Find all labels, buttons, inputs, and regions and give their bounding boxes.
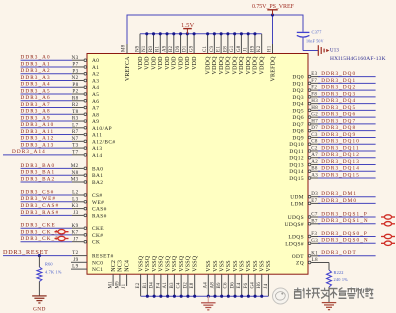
pin DQ6 / net DDR3_DQ6 [292,112,375,122]
svg-text:DDR3_A3: DDR3_A3 [21,75,51,81]
svg-text:VSSQ: VSSQ [159,255,165,272]
svg-text:A5: A5 [92,92,99,98]
svg-text:D9: D9 [176,45,181,52]
svg-text:A3: A3 [311,174,318,179]
svg-text:VSSQ: VSSQ [186,255,192,272]
svg-text:1.5V: 1.5V [181,22,195,29]
pin WE# / net DDR3_WE# [21,196,105,206]
svg-text:DDR3_DQ1: DDR3_DQ1 [321,78,356,84]
pin VSS (J4) [264,260,272,296]
svg-text:DQ15: DQ15 [289,176,304,182]
svg-text:VDDQ: VDDQ [219,56,225,75]
svg-text:VSSQ: VSSQ [138,255,144,272]
svg-text:A7: A7 [92,106,99,112]
svg-text:P3: P3 [72,68,78,74]
svg-text:DDR3_BA1: DDR3_BA1 [21,170,56,176]
svg-text:A7: A7 [311,153,318,158]
pin ZQ / wire to R222 [296,257,329,270]
svg-text:L3: L3 [72,196,78,202]
svg-text:L7: L7 [72,122,78,128]
svg-text:DDR3_DQ15: DDR3_DQ15 [321,172,360,178]
pin VSS (A8) [210,260,218,298]
svg-text:DDR3_WE#: DDR3_WE# [21,196,57,202]
pin BA0 / net DDR3_BA0 [21,163,104,173]
pin DQ3 / net DDR3_DQ3 [292,91,375,101]
pin DQ2 / net DDR3_DQ2 [292,85,375,95]
svg-text:G8: G8 [237,45,242,52]
svg-text:VDDQ: VDDQ [253,56,259,75]
wire DDR3_RESET to R60 [38,256,40,267]
svg-text:DDR3_RESET: DDR3_RESET [3,249,49,256]
svg-text:C3: C3 [311,133,318,138]
svg-text:VDDQ: VDDQ [246,56,252,75]
svg-text:DDR3_DQS1_N: DDR3_DQS1_N [321,218,369,224]
svg-text:A12/BC#: A12/BC# [92,139,115,145]
svg-text:A8: A8 [210,282,215,289]
pin LDQS# / net DDR3_DQS0_N [285,238,395,248]
svg-text:F8: F8 [311,92,317,97]
svg-text:LDM: LDM [291,201,304,207]
svg-text:DDR3_A13: DDR3_A13 [21,142,55,148]
svg-text:VSSQ: VSSQ [192,255,198,272]
capacitor C377 10nF 50V [297,30,324,44]
svg-text:E3: E3 [311,72,317,77]
svg-text:J4: J4 [264,283,269,288]
svg-text:DDR3_A12: DDR3_A12 [21,136,55,142]
pin BA2 / net DDR3_BA2 [21,176,104,186]
pin NC3 [115,260,123,289]
svg-text:VDD: VDD [138,56,144,70]
svg-text:DDR3_DQ5: DDR3_DQ5 [321,105,356,111]
svg-text:D4: D4 [150,282,155,289]
svg-text:U13: U13 [330,49,339,54]
svg-text:R2: R2 [72,102,79,108]
pin DQ15 / net DDR3_DQ15 [289,172,375,182]
svg-text:N8: N8 [72,170,79,176]
svg-text:P2: P2 [72,89,78,95]
svg-text:A3: A3 [92,78,99,84]
svg-text:DDR3_DQS0_N: DDR3_DQS0_N [321,238,369,244]
svg-text:VSSQ: VSSQ [172,255,178,272]
pin VSS (A4) [204,260,212,298]
svg-text:VSS: VSS [206,260,212,272]
svg-text:VDD: VDD [185,56,191,70]
pin DQ7 / net DDR3_DQ7 [292,118,375,128]
svg-text:D3: D3 [311,192,318,197]
pin DQ12 / net DDR3_DQ12 [289,152,375,162]
pin VDD (G9) [189,32,197,70]
svg-text:VSS: VSS [219,260,225,272]
svg-text:H9: H9 [250,45,255,52]
pin VSS (C6) [224,260,232,298]
svg-text:CS#: CS# [92,193,103,199]
svg-text:G1: G1 [230,45,235,52]
svg-text:DQ3: DQ3 [292,95,304,101]
svg-text:DDR3_DQ3: DDR3_DQ3 [321,91,356,97]
svg-text:R3: R3 [72,116,79,122]
svg-text:DDR3_DM0: DDR3_DM0 [321,198,357,204]
svg-text:CKE: CKE [92,226,104,232]
svg-text:RAS#: RAS# [92,213,107,219]
svg-text:DDR3_DQ2: DDR3_DQ2 [321,85,356,91]
svg-text:DDR3_CS#: DDR3_CS# [21,189,55,195]
svg-text:F2: F2 [311,86,317,91]
svg-text:DDR3_DQ11: DDR3_DQ11 [321,145,360,151]
pin RESET# / net DDR3_RESET [3,249,114,260]
pin VSSQ (D4) [150,255,158,298]
svg-text:DQ8: DQ8 [292,129,304,135]
svg-text:VSS: VSS [253,260,259,272]
svg-text:VDD: VDD [192,56,198,70]
svg-text:A8: A8 [92,112,99,118]
pin VDDQ (K2) [257,34,265,75]
svg-text:D1: D1 [183,45,188,52]
svg-text:A13: A13 [92,146,102,152]
designator U13 [330,49,339,54]
wire net VREF (VREFCA to C377) [127,15,303,44]
svg-text:A4: A4 [92,85,99,91]
svg-text:0.75V_PS_VREF: 0.75V_PS_VREF [252,4,295,10]
junction VREF node [271,13,274,16]
svg-text:VREFCA: VREFCA [125,56,131,81]
svg-text:DDR3_DQ13: DDR3_DQ13 [321,159,360,165]
svg-text:DDR3_A7: DDR3_A7 [21,102,51,108]
svg-text:A6: A6 [92,99,99,105]
svg-text:VDDQ: VDDQ [259,56,265,75]
pin CAS# / net DDR3_CAS# [21,203,107,213]
pin VDDQ (G8) [237,32,245,74]
svg-text:LDQS: LDQS [288,235,304,241]
svg-text:B9: B9 [217,282,222,289]
pin DQ11 / net DDR3_DQ11 [289,145,375,155]
svg-text:L2: L2 [72,190,78,196]
pin A8 / net DDR3_A8 [21,109,100,119]
pin VDDQ (J1) [244,32,252,74]
svg-text:VSS: VSS [266,260,272,272]
svg-text:T3: T3 [72,143,78,149]
svg-text:E8: E8 [190,282,195,288]
pin name VREFDQ [270,56,276,82]
resistor R222 240 1% [327,270,349,287]
svg-text:J9: J9 [73,257,78,263]
svg-text:T2: T2 [72,250,78,256]
pin VDD (N9) [135,34,143,70]
svg-text:DDR3_CK_N: DDR3_CK_N [21,229,61,235]
svg-text:J1: J1 [122,283,127,288]
svg-text:DDR3_DQ10: DDR3_DQ10 [321,139,360,145]
svg-text:R9: R9 [149,45,154,52]
svg-text:DQ13: DQ13 [289,162,304,168]
svg-text:VSSQ: VSSQ [179,255,185,272]
svg-text:DDR3_DQ12: DDR3_DQ12 [321,152,360,158]
pin UDQS# / net DDR3_DQS1_N [285,218,395,228]
pin VDD (D1) [183,32,191,70]
svg-text:F6: F6 [244,283,249,289]
svg-text:DDR3_A10: DDR3_A10 [21,122,55,128]
svg-text:DDR3_A4: DDR3_A4 [21,82,51,88]
svg-text:A1: A1 [163,282,168,289]
pin A11 / net DDR3_A11 [21,129,103,139]
pin VDD (A9) [162,32,170,70]
svg-text:DDR3_ODT: DDR3_ODT [321,250,357,256]
pin ODT / net DDR3_ODT [292,250,376,260]
svg-text:L8: L8 [312,257,318,263]
svg-text:DQ7: DQ7 [292,122,304,128]
svg-text:A10/AP: A10/AP [92,126,112,132]
svg-text:D2: D2 [183,282,188,289]
wire C377 to ground [303,38,318,51]
svg-text:DDR3_DQ8: DDR3_DQ8 [321,125,356,131]
svg-text:VDD: VDD [151,56,157,70]
pin VDD (D9) [176,32,184,70]
svg-text:A1: A1 [92,65,99,71]
svg-text:G4: G4 [250,282,255,289]
svg-text:E4: E4 [237,282,242,288]
svg-text:240 1%: 240 1% [334,277,349,282]
pin VDDQ (C1) [203,32,211,74]
svg-text:J7: J7 [73,236,78,242]
pin VSS (F6) [244,260,252,298]
svg-text:DDR3_CAS#: DDR3_CAS# [21,203,60,209]
svg-text:M2: M2 [71,163,79,169]
svg-text:A4: A4 [204,282,209,289]
svg-text:E8: E8 [223,46,228,52]
svg-text:K2: K2 [257,45,262,52]
pin VDDQ (E8) [223,32,231,74]
svg-text:DDR3_A1: DDR3_A1 [21,61,51,67]
svg-text:T7: T7 [72,149,78,155]
svg-text:H7: H7 [311,119,318,124]
pin NC1 [71,264,103,273]
svg-text:VDDQ: VDDQ [212,56,218,75]
svg-text:B1: B1 [143,282,148,289]
svg-text:N9: N9 [135,45,140,52]
wire VSS ground rail [141,295,269,297]
pin VDD (N1) [142,32,150,70]
svg-text:DQ6: DQ6 [292,115,304,121]
ground (VSS rail) [201,296,216,310]
svg-text:UDQS#: UDQS# [285,222,304,228]
svg-text:B7: B7 [311,219,318,224]
svg-text:DQ10: DQ10 [289,142,304,148]
svg-text:A11: A11 [92,133,102,139]
svg-text:VDD: VDD [158,56,164,70]
svg-text:GND: GND [33,307,46,313]
svg-text:VSS: VSS [226,260,232,272]
pin VDD (B2) [169,32,177,70]
svg-text:DDR3_DQ7: DDR3_DQ7 [321,118,356,124]
pin CS# / net DDR3_CS# [21,189,103,199]
svg-text:A2: A2 [92,72,99,78]
svg-text:DQ1: DQ1 [292,81,304,87]
svg-text:C9: C9 [210,45,215,52]
wire VDD power rail [140,33,262,35]
svg-text:C6: C6 [224,282,229,289]
svg-text:DQ11: DQ11 [289,149,304,155]
pin A2 / net DDR3_A2 [21,68,100,78]
svg-text:DDR3_A11: DDR3_A11 [21,129,55,135]
svg-text:M1: M1 [109,281,114,289]
svg-text:DDR3_A8: DDR3_A8 [21,109,51,115]
svg-text:E7: E7 [311,199,317,204]
svg-text:R7: R7 [72,129,79,135]
pin DQ1 / net DDR3_DQ1 [292,78,375,88]
pin VSSQ (A1) [163,255,171,298]
svg-text:A0: A0 [92,58,99,64]
pin A13 / net DDR3_A13 [21,142,103,152]
svg-text:DDR3_DQ14: DDR3_DQ14 [321,166,360,172]
power port 1.5V [181,22,195,34]
pin NC0 [71,257,103,266]
pin VSS (B9) [217,260,225,298]
pin DQ10 / net DDR3_DQ10 [289,139,375,149]
svg-text:DDR3_A6: DDR3_A6 [21,95,51,101]
svg-text:K9: K9 [72,223,79,229]
svg-text:F7: F7 [311,79,317,84]
pin DQ4 / net DDR3_DQ4 [292,98,375,108]
svg-text:B8: B8 [311,167,318,172]
junction on DDR3_RESET [38,254,41,257]
svg-text:E1: E1 [217,46,222,52]
svg-text:A14: A14 [92,153,102,159]
pin VSS (E4) [237,260,245,298]
pin NC2 [109,260,117,289]
svg-text:10nF 50V: 10nF 50V [306,39,324,44]
pin CK# / net DDR3_CK_N [21,229,104,239]
svg-text:DQ2: DQ2 [292,88,304,94]
svg-text:N1: N1 [142,45,147,52]
svg-text:BA1: BA1 [92,173,103,179]
svg-text:DDR3_DQ6: DDR3_DQ6 [321,112,356,118]
svg-text:K1: K1 [311,251,318,256]
pin A6 / net DDR3_A6 [21,95,100,105]
pin A12/BC# / net DDR3_A12 [21,136,116,146]
ground (ZQ) [322,303,337,310]
svg-text:DDR3_BA2: DDR3_BA2 [21,176,56,182]
svg-text:J1: J1 [244,47,249,52]
svg-text:NC2: NC2 [111,260,117,272]
svg-text:C4: C4 [177,282,182,289]
part number HXI15H4G160AF-13K [330,56,386,62]
svg-text:C1: C1 [203,45,208,52]
pin VSS (G4) [250,260,258,298]
svg-text:DDR3_DM1: DDR3_DM1 [321,191,357,197]
resistor R60 4.7K 1% [37,262,62,282]
pin DQ9 / net DDR3_DQ9 [292,132,375,142]
svg-text:VDD: VDD [178,56,184,70]
pin A5 / net DDR3_A5 [21,88,100,98]
svg-text:A9: A9 [162,45,167,52]
pin VDDQ (G1) [230,32,238,74]
pin A7 / net DDR3_A7 [21,102,100,112]
svg-text:VSS: VSS [240,260,246,272]
pin A10/AP / net DDR3_A10 [21,122,113,132]
pin VSSQ (F4) [156,255,164,298]
pin A9 / net DDR3_A9 [21,115,100,125]
svg-text:DQ4: DQ4 [292,102,304,108]
svg-text:DDR3_DQ0: DDR3_DQ0 [321,71,356,77]
pin VREFCA number M8 [122,44,127,52]
svg-text:NC0: NC0 [92,260,103,266]
svg-text:N2: N2 [72,75,79,81]
wire R222 to GND [328,287,330,302]
svg-text:R60: R60 [45,262,53,267]
svg-text:K7: K7 [72,230,79,236]
pin VSSQ (C4) [177,255,185,298]
svg-text:DDR3_A0: DDR3_A0 [21,55,51,61]
pin VSS (H6) [257,260,265,298]
pin VDDQ (E1) [217,32,225,74]
pin CK / net DDR3_CK_P [21,236,101,246]
svg-text:DDR3_DQS0_P: DDR3_DQS0_P [321,231,368,237]
pin UDQS / net DDR3_DQS1_P [288,211,395,221]
svg-text:DDR3_DQ4: DDR3_DQ4 [321,98,356,104]
svg-text:VSSQ: VSSQ [145,255,151,272]
pin VDDQ (C9) [210,32,218,74]
svg-text:DDR3_CKE: DDR3_CKE [21,223,56,229]
pin VREFDQ number H1 [268,45,273,52]
svg-text:DQ14: DQ14 [289,169,304,175]
wire VREFDQ pin drop [272,15,274,44]
pin LDQS / net DDR3_DQS0_P [288,231,395,241]
svg-text:M8: M8 [122,44,127,52]
svg-text:A2: A2 [311,160,318,165]
svg-text:C8: C8 [311,140,318,145]
svg-text:C377: C377 [312,30,323,35]
pin A3 / net DDR3_A3 [21,75,100,85]
svg-text:P7: P7 [72,62,78,68]
svg-text:C2: C2 [311,146,318,151]
svg-text:BA2: BA2 [92,180,103,186]
svg-text:VSSQ: VSSQ [152,255,158,272]
power port 0.75V_PS_VREF [252,4,295,15]
svg-text:VREFDQ: VREFDQ [270,56,276,82]
svg-text:VSS: VSS [213,260,219,272]
svg-text:H1: H1 [268,45,273,52]
wire R60 to GND [38,282,40,296]
svg-text:VSS: VSS [260,260,266,272]
svg-text:ODT: ODT [292,254,305,260]
pin DQ8 / net DDR3_DQ8 [292,125,375,135]
svg-text:VDD: VDD [145,56,151,70]
svg-text:F4: F4 [156,283,161,289]
pin BA1 / net DDR3_BA1 [21,170,104,180]
svg-text:B2: B2 [169,45,174,52]
svg-text:LDQS#: LDQS# [285,241,304,247]
pin VSSQ (B3) [170,255,178,298]
pin LDM / net DDR3_DM0 [291,198,376,208]
svg-text:M9: M9 [115,281,120,289]
svg-text:DQ9: DQ9 [292,135,304,141]
svg-text:VDDQ: VDDQ [205,56,211,75]
svg-text:H3: H3 [311,99,318,104]
pin VSSQ (E8) [190,255,198,298]
svg-text:DDR3_BA0: DDR3_BA0 [21,163,56,169]
svg-text:4.7K 1%: 4.7K 1% [45,270,62,275]
pin VSSQ (E2) [136,255,144,296]
svg-text:DDR3_DQ9: DDR3_DQ9 [321,132,356,138]
svg-text:UDM: UDM [290,195,304,201]
svg-text:VSS: VSS [233,260,239,272]
svg-text:K3: K3 [72,203,79,209]
svg-text:L9: L9 [72,264,78,270]
svg-text:NC4: NC4 [124,260,130,272]
svg-text:C7: C7 [311,213,318,218]
svg-text:J3: J3 [73,210,78,216]
svg-text:RESET#: RESET# [92,254,114,260]
svg-text:F3: F3 [311,232,317,237]
svg-text:H6: H6 [257,282,262,289]
